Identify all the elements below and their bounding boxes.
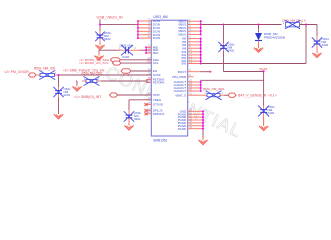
inductor L500 (crossed box) (286, 22, 300, 27)
pin VBAT_S stub right (188, 94, 203, 96)
svg-text:<1> BUSPI_I2C_SCL: <1> BUSPI_I2C_SCL (79, 61, 109, 65)
wire branch down to C50x (58, 75, 60, 87)
junction VBUS (200, 27, 202, 29)
ground below D500 (258, 44, 260, 48)
svg-text:USB_VBUS_IN: USB_VBUS_IN (97, 16, 123, 20)
wire C501 to MID bus (140, 49, 147, 51)
junction VBUS (200, 20, 202, 22)
pin DCIN stub left (146, 34, 151, 36)
C50x x223 not-mounted cross (218, 42, 228, 52)
pin BOOT stub right (188, 71, 200, 73)
svg-text:0402: 0402 (123, 55, 130, 59)
pin VM stub right (188, 41, 201, 43)
junction PGND (202, 128, 204, 130)
svg-text:0402: 0402 (104, 37, 111, 41)
svg-text:2: 2 (135, 46, 137, 50)
wire USB_VBUS vertical (99, 19, 101, 31)
svg-text:VBAT_S: VBAT_S (175, 93, 186, 97)
pin NVSF stub left (146, 74, 151, 76)
junction MID (145, 49, 147, 51)
junction PGND (202, 125, 204, 127)
junction VM (200, 38, 202, 40)
pin PGND stub right (188, 122, 203, 124)
pin VBUS stub right (188, 24, 201, 26)
wire INT to pin (118, 94, 152, 96)
pin VBUS stub right (188, 30, 201, 32)
pin CHGOUT stub right (188, 90, 201, 92)
diode D500 (255, 33, 262, 41)
pin SW stub right (188, 60, 201, 62)
pin VBUS stub right (188, 33, 201, 35)
C504 not-mounted cross (312, 37, 322, 47)
junction VM (200, 57, 202, 59)
svg-text:R50x_NM_0201: R50x_NM_0201 (203, 87, 225, 91)
svg-text:2: 2 (55, 71, 57, 75)
ground below D50x (99, 42, 101, 45)
svg-text:0201: 0201 (64, 93, 71, 97)
svg-text:SW: SW (181, 62, 186, 66)
junction x223 (222, 23, 224, 25)
MID bus vertical (145, 47, 147, 53)
junction VM (200, 54, 202, 56)
wire R50x to off-page (224, 94, 228, 96)
ground below Z50x (263, 117, 265, 126)
junction PGND (202, 113, 204, 115)
wire SDA to pin (120, 59, 151, 61)
pin MID stub left (146, 49, 151, 51)
pin VM stub right (188, 44, 201, 46)
wire SCL to pin (121, 62, 151, 64)
junction CHGOUT (200, 81, 202, 83)
off-page connector Chg_EN (121, 69, 131, 73)
IC U503_NM body (151, 20, 187, 136)
capacitor C50x on x223 (223, 43, 225, 46)
CHGOUT bus (200, 80, 202, 91)
pin DCIN stub left (146, 37, 151, 39)
svg-text:DMINUS: DMINUS (153, 112, 164, 116)
pin PGND stub right (188, 128, 203, 130)
TVS/cap D50x (not mounted) (99, 31, 101, 35)
PGND bus (202, 111, 204, 136)
VBUS bus right vertical (200, 21, 202, 34)
pin DPLUS no-connect stub (147, 110, 152, 112)
svg-text:PRED40150DB: PRED40150DB (264, 35, 285, 39)
diode D500 vertical wire (258, 25, 260, 33)
ground below C504 (316, 49, 318, 53)
svg-text:0402: 0402 (228, 48, 235, 52)
C50x not-mounted cross (53, 87, 63, 97)
pin PGND stub right (188, 125, 203, 127)
pin CHGOUT stub right (188, 81, 201, 83)
pin OTG/ID no-connect stub (147, 104, 152, 106)
resistor R50x (3V3OR) (36, 74, 40, 76)
junction VM (200, 51, 202, 53)
pin DCIN stub left (146, 24, 151, 26)
C501 not-mounted cross (121, 45, 133, 55)
pin VM stub right (188, 47, 201, 49)
svg-text:<2> PM_3V3OR: <2> PM_3V3OR (4, 70, 29, 74)
C50x VREG not-mounted cross (124, 111, 134, 121)
junction PGND (202, 122, 204, 124)
svg-text:0402: 0402 (322, 43, 329, 47)
svg-text:MID: MID (153, 51, 158, 55)
junction PGND (202, 110, 204, 112)
capacitor C501 (121, 49, 126, 51)
svg-text:<0.1>: <0.1> (268, 93, 277, 97)
R50x not-mounted cross (39, 70, 55, 79)
junction DCIN (137, 20, 139, 22)
junction MID (145, 52, 147, 54)
junction VBAT top (263, 70, 265, 72)
wire VM vertical (305, 25, 307, 64)
junction PGND (202, 116, 204, 118)
junction PGND (202, 119, 204, 121)
wire R50x to pins FETSNS/FETDRV (101, 80, 147, 82)
junction DCIN (137, 34, 139, 36)
pin DMINUS no-connect stub (147, 113, 152, 115)
wire x223 corner to VBAT (224, 71, 264, 73)
wire 3V3OR to pin NVSF (59, 74, 152, 76)
junction VM (200, 47, 202, 49)
svg-text:PGND: PGND (178, 127, 186, 131)
wire C501 left to ground (99, 49, 121, 51)
junction DCIN (137, 37, 139, 39)
pin SW stub at VM wire (188, 63, 201, 65)
ground on FETDRV wire (76, 80, 77, 82)
pin SW stub right (188, 57, 201, 59)
junction SW wire (200, 62, 202, 64)
svg-text:SMB1351: SMB1351 (153, 139, 167, 143)
wire L500 to corner (300, 24, 318, 26)
pin MID stub left (146, 52, 151, 54)
junction VM (200, 60, 202, 62)
junction USB_VBUS (99, 24, 101, 26)
svg-text:OTG/ID: OTG/ID (153, 103, 163, 107)
svg-text:R50x_NM_020: R50x_NM_020 (34, 66, 55, 70)
pin PGND stub right (188, 116, 203, 118)
wire USB_VBUS to DCIN bus (100, 24, 138, 26)
ground below VREG cap (128, 124, 130, 126)
svg-text:2: 2 (98, 77, 100, 81)
svg-text:0201: 0201 (134, 117, 141, 121)
pin CHGOUT stub right (188, 87, 201, 89)
wire C50x to ground (58, 98, 60, 115)
DCIN bus vertical (137, 21, 139, 38)
pin GND stub right (188, 110, 203, 112)
junction D500 top (257, 23, 259, 25)
svg-text:0402: 0402 (268, 111, 275, 115)
off-page connector SDA (110, 58, 120, 62)
pin FETDRV stub left (146, 82, 151, 84)
pin VBUS stub right (188, 27, 201, 29)
capacitor C504 (316, 36, 318, 41)
svg-text:<1> SMB(IO)_INT: <1> SMB(IO)_INT (74, 95, 101, 99)
pin VPH_PWR stub right (188, 76, 194, 78)
pin PGND stub right (188, 113, 203, 115)
wire BOOT dead-end (200, 71, 210, 73)
pin SW stub right (188, 51, 201, 53)
wire x223 vertical (223, 25, 225, 44)
pin VBUS stub right (188, 20, 201, 22)
ground below C50x (58, 113, 60, 115)
svg-text:DCIN: DCIN (153, 36, 160, 40)
wire VREG corner (129, 99, 151, 101)
junction CHGOUT (200, 87, 202, 89)
R50x FETDRV not-mounted cross (84, 76, 100, 85)
pin DCIN stub left (146, 20, 151, 22)
pin VM stub right (188, 38, 201, 40)
cap/TVS C50x on VBAT (not mounted) (263, 106, 265, 110)
svg-text:R50x NM 0201: R50x NM 0201 (82, 71, 103, 75)
off-page connector BAT_V_SENSE_R (228, 93, 236, 97)
wire Chg_EN to pin EN (131, 70, 152, 72)
pin SW stub right (188, 54, 201, 56)
svg-text:BAT_V_SENSE_R: BAT_V_SENSE_R (238, 93, 267, 97)
wire CHGOUT to VBAT (201, 79, 264, 81)
capacitor C50x on VREG (128, 110, 130, 115)
pin VREG stub left (146, 99, 151, 101)
svg-text:STAT: STAT (153, 93, 160, 97)
svg-text:VREG: VREG (153, 98, 162, 102)
pin PGND stub right (188, 119, 203, 121)
junction VM (200, 44, 202, 46)
ground below C501 wire (98, 53, 100, 56)
svg-text:BOOT: BOOT (178, 70, 186, 74)
svg-text:1: 1 (205, 91, 207, 95)
junction VM (200, 41, 202, 43)
wire VBUS to L500 (201, 24, 282, 26)
junction CHGOUT (200, 90, 202, 92)
off-page connector SCL (112, 61, 121, 65)
junction VBUS (200, 23, 202, 25)
wire C504 drop (316, 25, 318, 37)
ground below PGND bus (202, 137, 204, 140)
junction DCIN (137, 27, 139, 29)
junction CHGOUT (200, 84, 202, 86)
pin FETSNS stub left (146, 79, 151, 81)
junction VBUS (200, 30, 202, 32)
svg-text:FETDRV: FETDRV (153, 81, 165, 85)
junction MID (145, 46, 147, 48)
svg-text:VPH_PWR: VPH_PWR (172, 75, 186, 79)
pin DCIN stub left (146, 27, 151, 29)
pin SCL stub left (146, 62, 151, 64)
off-page connector SMB(IO)_INT (110, 93, 118, 97)
pin EN stub left (146, 70, 151, 72)
wire VM horizontal (201, 63, 306, 65)
pin SDA stub left (146, 59, 151, 61)
resistor R50x (FETDRV) (82, 80, 86, 82)
junction 3V3OR branch (57, 74, 59, 76)
pin CHGOUT stub right (188, 84, 201, 86)
wire VBAT vertical (263, 72, 265, 106)
junction DCIN (137, 30, 139, 32)
VM bus right vertical (200, 39, 202, 64)
resistor R50x (BAT sense) (203, 94, 207, 96)
pin STAT stub left (146, 94, 151, 96)
svg-text:1: 1 (41, 71, 43, 75)
off-page connector PM_3V3OR (29, 73, 37, 77)
pin MID stub left (146, 46, 151, 48)
R50x BAT not-mounted cross (206, 91, 222, 100)
capacitor C50x on 3V3OR (58, 87, 60, 91)
svg-text:NVSF: NVSF (153, 73, 161, 77)
junction VBUS (200, 33, 202, 35)
pin DCIN stub left (146, 30, 151, 32)
junction DCIN (137, 23, 139, 25)
svg-text:2: 2 (222, 91, 224, 95)
junction VM return (305, 23, 307, 25)
svg-text:SCL: SCL (153, 61, 159, 65)
